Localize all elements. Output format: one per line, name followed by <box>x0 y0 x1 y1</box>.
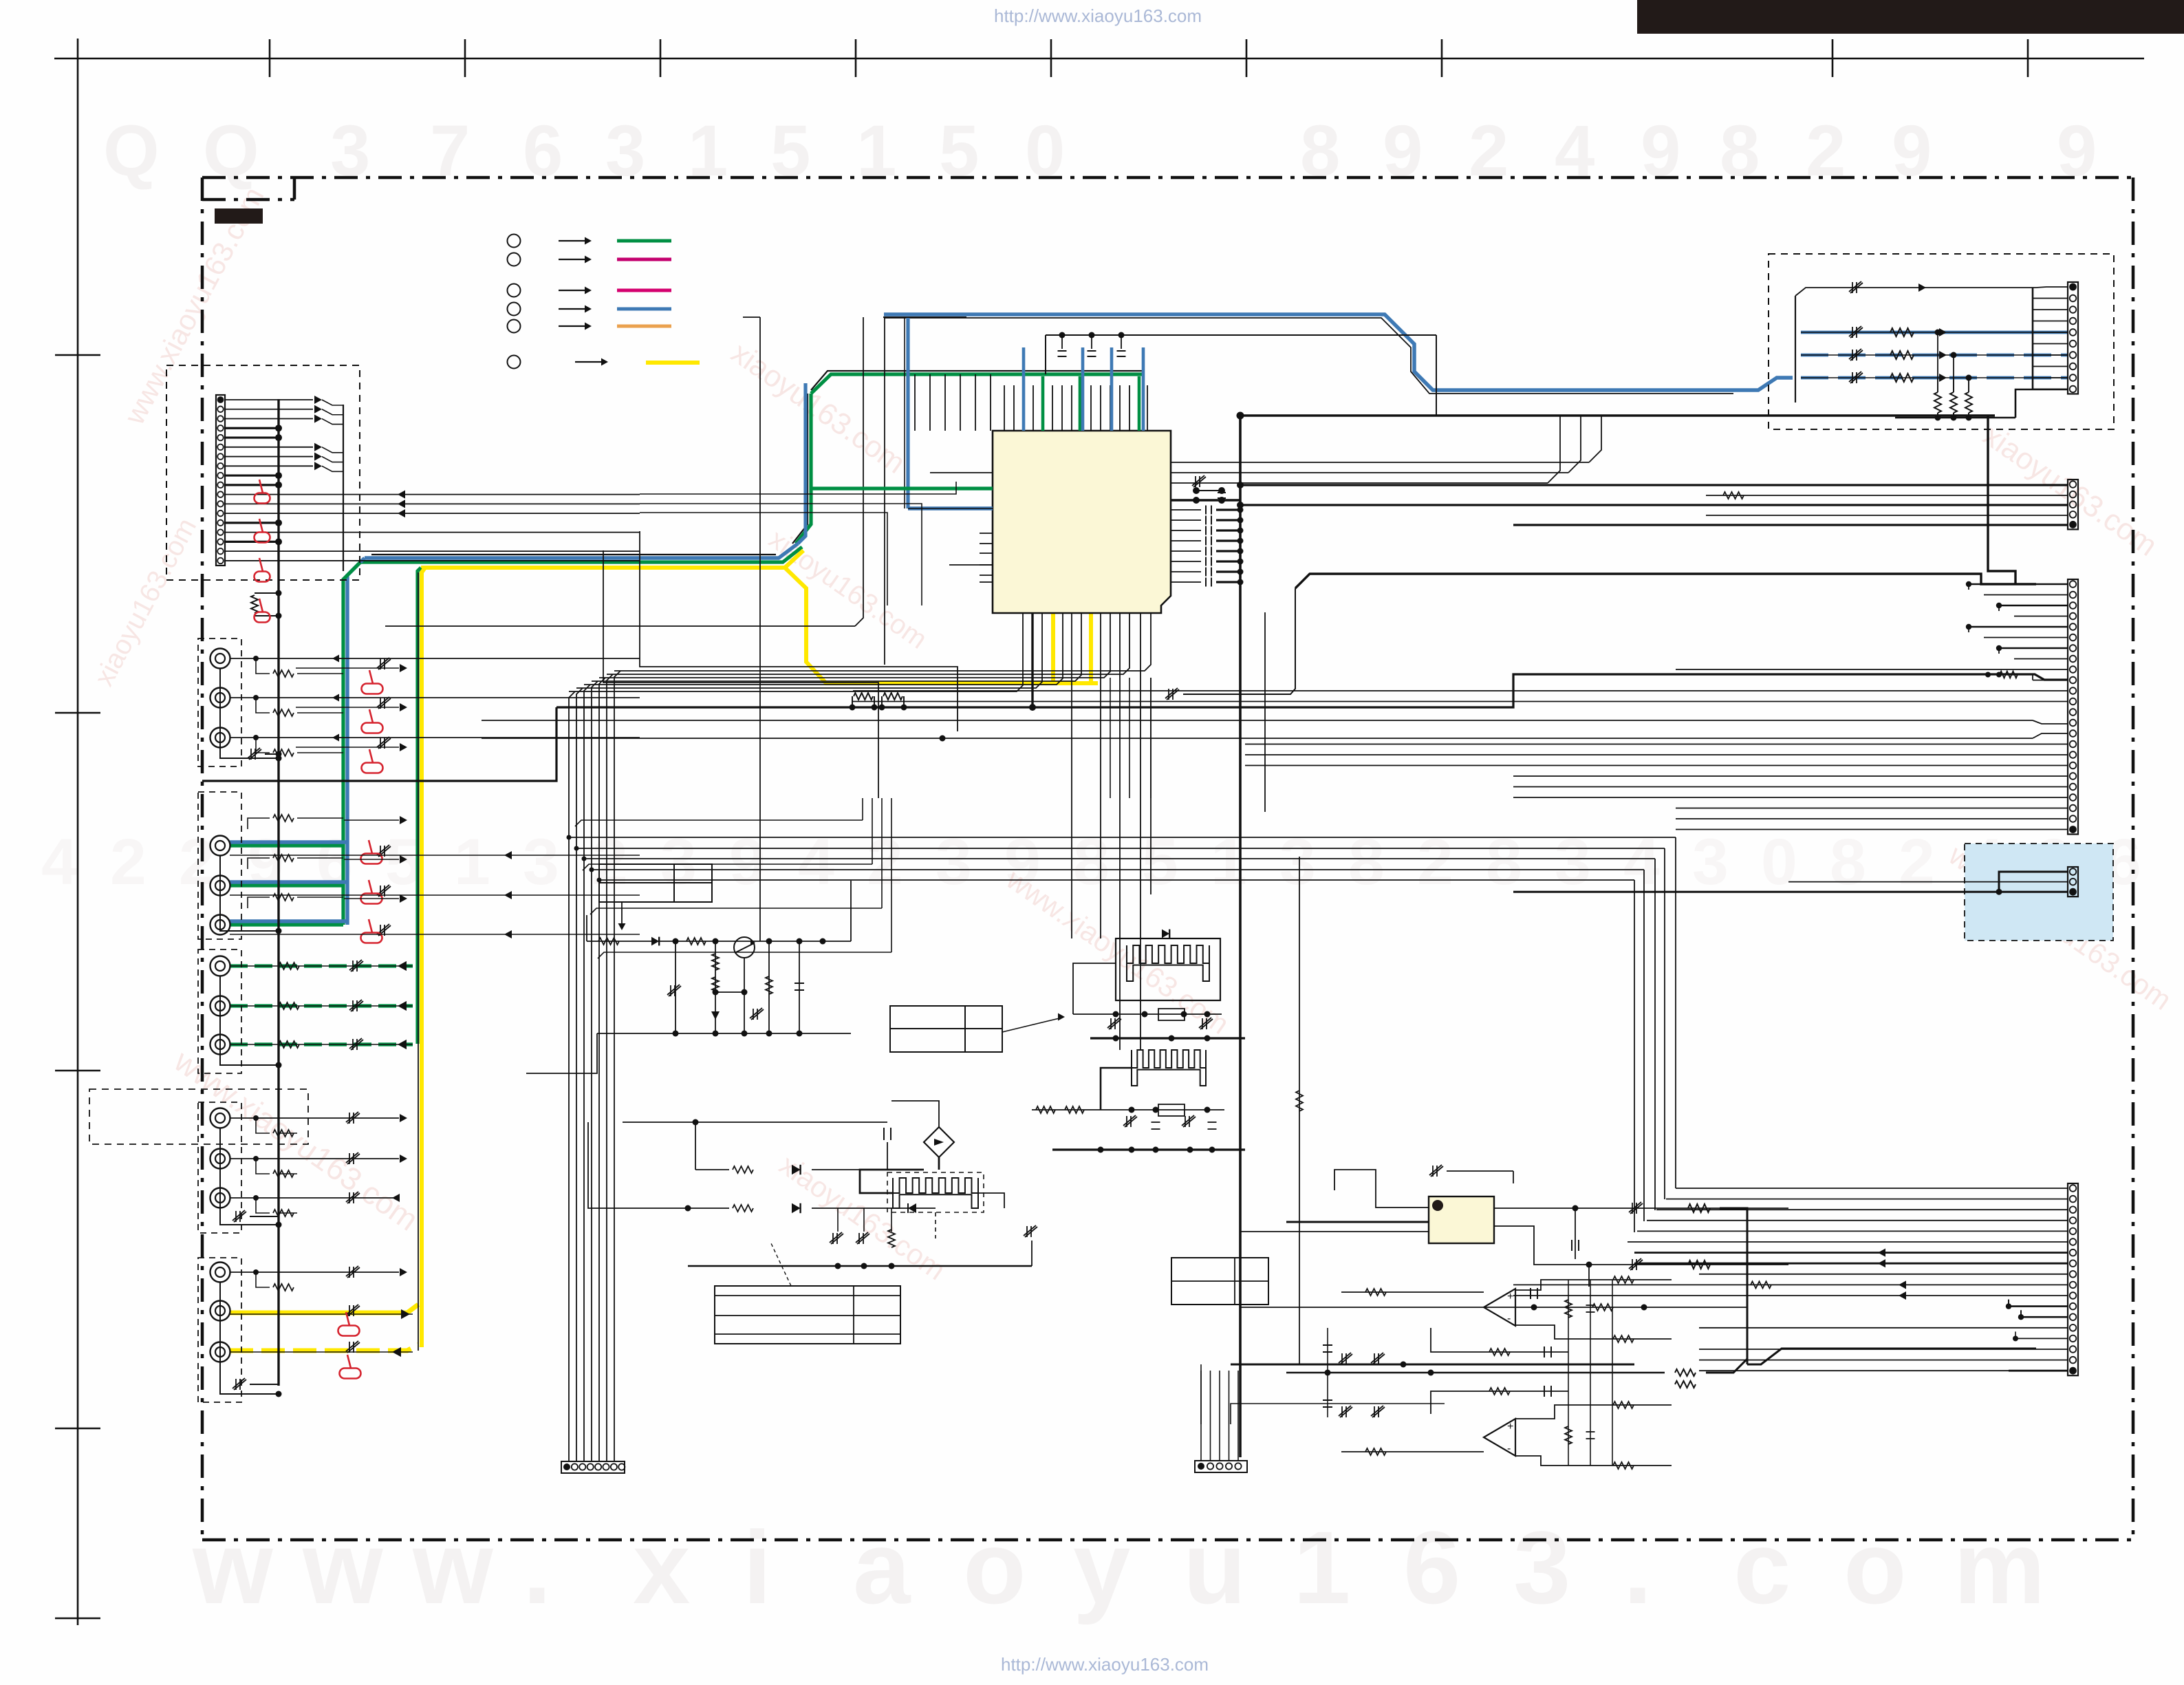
blue green jack rows group2 <box>230 844 343 847</box>
svg-text:4: 4 <box>798 826 834 899</box>
jack wires group4 <box>230 1117 256 1119</box>
vertical bus x499 <box>343 405 344 571</box>
black top row to connector <box>1795 288 2036 296</box>
IC U1 bottom pin wires bend left into bundle <box>569 613 1023 691</box>
group5 ground cap <box>233 1378 246 1390</box>
wire blue top bus <box>884 314 1733 390</box>
psu rows left <box>623 1121 887 1123</box>
diode bridge D1 <box>924 1127 954 1157</box>
group2 resistor-row arrows into bus <box>344 819 399 821</box>
svg-text:Q: Q <box>103 111 160 191</box>
svg-text:a: a <box>853 1510 911 1625</box>
board outline bottom <box>202 1538 2133 1542</box>
page frame left rule <box>77 39 79 1625</box>
svg-text:y: y <box>1073 1510 1130 1625</box>
right-side long horizontals into staircase <box>1240 440 1241 441</box>
horizontal corner rows from J8 verticals <box>575 820 863 826</box>
RCA jack <box>210 956 230 976</box>
jack wires group2 <box>248 818 270 829</box>
black companion of yellow vertical <box>418 572 419 1351</box>
wire teal bus horizontal (blue green black) <box>371 554 776 555</box>
U2 left wires <box>1334 1170 1429 1208</box>
misc vertical x1839 <box>1264 612 1266 812</box>
jack group 1 dashed box <box>198 638 241 766</box>
nested rectangles left-mid (long runs from left box rows) <box>640 482 956 494</box>
RCA jack <box>210 996 230 1016</box>
long bundle horizontals mid page <box>569 837 1676 838</box>
transistor Q1 <box>734 937 755 958</box>
misc vertical x1889 <box>1299 857 1300 1364</box>
IC right upper rows <box>1171 462 1589 463</box>
svg-text:3: 3 <box>1555 826 1591 899</box>
RCA jack <box>210 649 230 669</box>
thick horizontal y604 <box>1240 414 1995 417</box>
svg-text:+: + <box>1507 1291 1513 1302</box>
svg-text:5: 5 <box>939 111 979 191</box>
svg-text:x: x <box>633 1510 690 1625</box>
green pin verticals top <box>1041 376 1045 431</box>
jack group 4 dashed box <box>198 1102 241 1233</box>
jack wires group5 <box>230 1271 256 1273</box>
RCA jack <box>210 688 230 708</box>
wire blue vertical pair left of IC <box>798 383 806 544</box>
svg-text:Q: Q <box>203 111 259 191</box>
svg-text:1: 1 <box>1293 1510 1350 1625</box>
table T1 <box>599 864 712 902</box>
svg-text:o: o <box>963 1510 1026 1625</box>
svg-text:4: 4 <box>1623 826 1660 899</box>
opamp B <box>1484 1419 1515 1456</box>
psu bottom rail <box>688 1265 1032 1267</box>
wire green black pair vertical drop left of IC <box>792 394 808 544</box>
vertical feeders on left of connector A <box>2032 288 2034 389</box>
dashed harness box top-left <box>166 365 360 580</box>
svg-text:1: 1 <box>454 826 490 899</box>
bottom rail of box <box>1895 417 2015 419</box>
connector B 5pin <box>2068 480 2078 529</box>
RCA jack <box>210 915 230 935</box>
bundle right verticals down to lower right <box>1675 837 1676 1188</box>
board outline tab <box>293 178 296 200</box>
watermark faint digits row middle <box>41 826 2141 899</box>
comb IC CN3 dashed <box>887 1172 984 1212</box>
opamp feedback grid <box>1515 1280 1672 1290</box>
vertical drops from IC bottom bundle to comb area <box>1071 678 1072 938</box>
svg-text:4: 4 <box>1555 111 1594 191</box>
connector A 10pin <box>2068 282 2078 394</box>
svg-text:4: 4 <box>41 826 78 899</box>
svg-text:3: 3 <box>660 826 697 899</box>
regulator verticals <box>675 941 676 1033</box>
thick horizontal y834 from IC area <box>1295 574 2036 588</box>
svg-text:w: w <box>412 1510 493 1625</box>
svg-text:2: 2 <box>592 826 628 899</box>
pullup resistors to bottom rail <box>1934 392 1941 413</box>
comb1 lower row <box>1073 1013 1222 1015</box>
thick vertical bus x1803 <box>1239 416 1242 1457</box>
frame tick marks top <box>269 39 271 77</box>
svg-text:8: 8 <box>1348 826 1385 899</box>
svg-text:5: 5 <box>1142 826 1178 899</box>
dashed box top-right <box>1769 254 2114 429</box>
frame tick marks left <box>55 354 100 356</box>
yellow jack rows group5 <box>230 1305 418 1313</box>
wire green black pair top <box>811 374 1145 394</box>
regulator circuit <box>587 941 851 942</box>
svg-text:1: 1 <box>856 111 896 191</box>
yellow green left corner down <box>418 568 421 1044</box>
svg-text:m: m <box>1954 1510 2045 1625</box>
svg-text:3: 3 <box>1513 1510 1570 1625</box>
thick rail y1028 step up at 2200 to conn C <box>1240 674 2068 707</box>
jack wires group3 extra resistors <box>279 963 299 969</box>
long thin wires from opamp area to J9 <box>1231 1404 1445 1424</box>
svg-text:o: o <box>1844 1510 1907 1625</box>
hatchcap feed above U2 <box>1429 1165 1443 1177</box>
svg-text:8: 8 <box>1830 826 1866 899</box>
svg-text:.: . <box>1623 1510 1652 1625</box>
RCA jack <box>210 1149 230 1169</box>
thick feed into connector E bottom <box>2009 1370 2068 1372</box>
svg-text:8: 8 <box>1720 111 1760 191</box>
legend arrows <box>559 240 587 242</box>
svg-text:9: 9 <box>1383 111 1423 191</box>
RCA jack <box>210 1188 230 1208</box>
vertical rails in opamp grid <box>1568 1280 1569 1466</box>
yellow verticals into IC bottom <box>1051 613 1055 683</box>
three long rows from bus to comb area <box>343 780 556 782</box>
lower rail from U2 <box>1240 1307 1534 1308</box>
watermark faint digits row top <box>103 111 2097 191</box>
svg-text:6: 6 <box>523 111 563 191</box>
svg-text:3: 3 <box>330 111 370 191</box>
U2 right circuit <box>1494 1208 1788 1209</box>
table T3 right <box>1171 1258 1268 1305</box>
legend circles <box>508 235 521 248</box>
wire blue bus into top-right box <box>1733 378 1793 390</box>
bottom mid table T4 <box>715 1286 900 1344</box>
RCA jack <box>210 1301 230 1321</box>
J11 wires <box>225 399 313 400</box>
jack group 3 dashed box <box>198 949 241 1073</box>
connector J9 5pin bottom-mid <box>1195 1461 1247 1472</box>
trunk vertical <box>1795 296 1796 403</box>
group2 thin rows with left arrows <box>230 855 640 856</box>
black label rectangle top-left <box>215 208 263 224</box>
svg-text:6: 6 <box>1403 1510 1460 1625</box>
feedback caps row <box>1431 1328 1568 1352</box>
IC U1 main microcontroller <box>993 431 1171 613</box>
svg-text:3: 3 <box>936 826 972 899</box>
board outline right <box>2132 178 2135 1540</box>
opamp A <box>1484 1289 1515 1326</box>
vertical bus x405 <box>277 399 279 1386</box>
RCA jack <box>210 1035 230 1055</box>
comb IC CN2 <box>1132 1050 1206 1086</box>
svg-text:3: 3 <box>605 111 645 191</box>
comb1 bottom thick rail <box>1090 1037 1245 1039</box>
blue pin verticals top <box>1022 347 1026 431</box>
IC U1 left pin wires <box>811 486 993 490</box>
wire blue drop to IC left pin <box>906 318 909 508</box>
svg-text:.: . <box>523 1510 552 1625</box>
connector C 24pin <box>2068 579 2078 835</box>
group1 ground cap <box>248 748 261 760</box>
IC U2 small <box>1429 1196 1494 1243</box>
connector J8 8pin bottom-left <box>561 1461 625 1473</box>
RCA jack <box>210 836 230 856</box>
board outline left <box>201 178 204 1540</box>
comb IC CN1 <box>1116 938 1220 1000</box>
wide dashed box left <box>89 1089 308 1144</box>
svg-text:8: 8 <box>1486 826 1522 899</box>
connector E 18pin <box>2068 1183 2078 1375</box>
svg-text:-: - <box>1507 1443 1511 1455</box>
comb2 lower row <box>1032 1109 1224 1110</box>
jack group 5 dashed box <box>198 1258 241 1402</box>
title block black bar top-right <box>1637 0 2184 34</box>
svg-text:1: 1 <box>1211 826 1247 899</box>
opamp input network <box>1341 1291 1484 1293</box>
svg-text:2: 2 <box>1806 111 1846 191</box>
comb2 bottom thick rail <box>1052 1148 1245 1150</box>
svg-text:8: 8 <box>1300 111 1340 191</box>
group4 ground cap <box>233 1210 246 1222</box>
RCA jack <box>210 1108 230 1128</box>
caps left column <box>1327 1328 1328 1417</box>
wire yellow bus horizontal <box>421 550 803 568</box>
RCA jack <box>210 876 230 896</box>
svg-text:9: 9 <box>1641 111 1680 191</box>
svg-text:3: 3 <box>523 826 559 899</box>
thick angled to right <box>1747 1349 2036 1364</box>
blue shaded box <box>1965 844 2113 941</box>
RCA jack <box>210 728 230 748</box>
teal bus left corner down to jacks <box>347 558 365 925</box>
svg-text:2: 2 <box>1469 111 1509 191</box>
page frame top rule <box>54 58 2144 60</box>
IC right row thick junction <box>1171 499 1240 502</box>
cap symbols along jack rows <box>377 658 391 669</box>
svg-text:w: w <box>192 1510 273 1625</box>
legend colour samples <box>617 239 671 243</box>
svg-text:+: + <box>1507 1421 1513 1432</box>
left long horizontals from left area <box>640 531 958 731</box>
svg-text:w: w <box>302 1510 383 1625</box>
J9 feeders <box>1200 1371 1202 1461</box>
svg-text:3: 3 <box>1692 826 1729 899</box>
thick rail y1983 <box>1231 1364 1634 1366</box>
thick step from left col to y1028 <box>202 707 556 781</box>
green dashed jack rows group3 <box>230 964 413 967</box>
red switch symbols <box>255 480 270 504</box>
connector D 3pin <box>2068 867 2078 897</box>
svg-text:http://www.xiaoyu163.com: http://www.xiaoyu163.com <box>994 6 1202 26</box>
svg-text:3: 3 <box>1279 826 1316 899</box>
watermark faint bottom www text <box>192 1510 2045 1625</box>
connector J11 18pin <box>216 395 225 566</box>
svg-text:u: u <box>1183 1510 1246 1625</box>
long vertical to regulator x1105 <box>759 317 761 941</box>
blue branch rows <box>1801 331 2068 334</box>
regulator bottom rail <box>597 1033 851 1034</box>
svg-text:2: 2 <box>1899 826 1935 899</box>
svg-text:0: 0 <box>1025 111 1065 191</box>
svg-text:5: 5 <box>770 111 810 191</box>
svg-text:0: 0 <box>1761 826 1797 899</box>
jack group 2 dashed box <box>198 792 241 939</box>
svg-text:1: 1 <box>688 111 728 191</box>
svg-text:-: - <box>1507 1313 1511 1324</box>
svg-text:2: 2 <box>110 826 147 899</box>
svg-text:i: i <box>743 1510 772 1625</box>
svg-text:9: 9 <box>2057 111 2097 191</box>
IC U1 right pin rows with caps <box>1171 509 1201 511</box>
yellow route right of bus <box>803 550 804 551</box>
cap stub row above IC right <box>1046 334 1436 336</box>
IC U1 top pin wires <box>1004 385 1005 431</box>
svg-text:8: 8 <box>1073 826 1110 899</box>
svg-text:7: 7 <box>430 111 470 191</box>
svg-text:9: 9 <box>1892 111 1932 191</box>
resistor on bus below box <box>255 592 279 594</box>
psu row 2 <box>588 1122 688 1208</box>
svg-text:http://www.xiaoyu163.com: http://www.xiaoyu163.com <box>1001 1654 1209 1675</box>
yellow drop from bus to lower run <box>785 568 1098 683</box>
RCA jack <box>210 1342 230 1362</box>
thick black y1028 with twin resistors <box>556 706 1240 708</box>
board outline dash-dot top <box>202 176 2133 180</box>
svg-text:2: 2 <box>1417 826 1453 899</box>
vertical bundle from IC bottom to lower area <box>1110 678 1111 798</box>
long thin pair below <box>482 720 2033 721</box>
jack signal wires group1 (plain) <box>230 658 256 659</box>
RCA jack <box>210 1263 230 1282</box>
svg-text:c: c <box>1733 1510 1791 1625</box>
black stub and verticals left of IC <box>883 316 966 318</box>
table T2 <box>890 1006 1002 1052</box>
